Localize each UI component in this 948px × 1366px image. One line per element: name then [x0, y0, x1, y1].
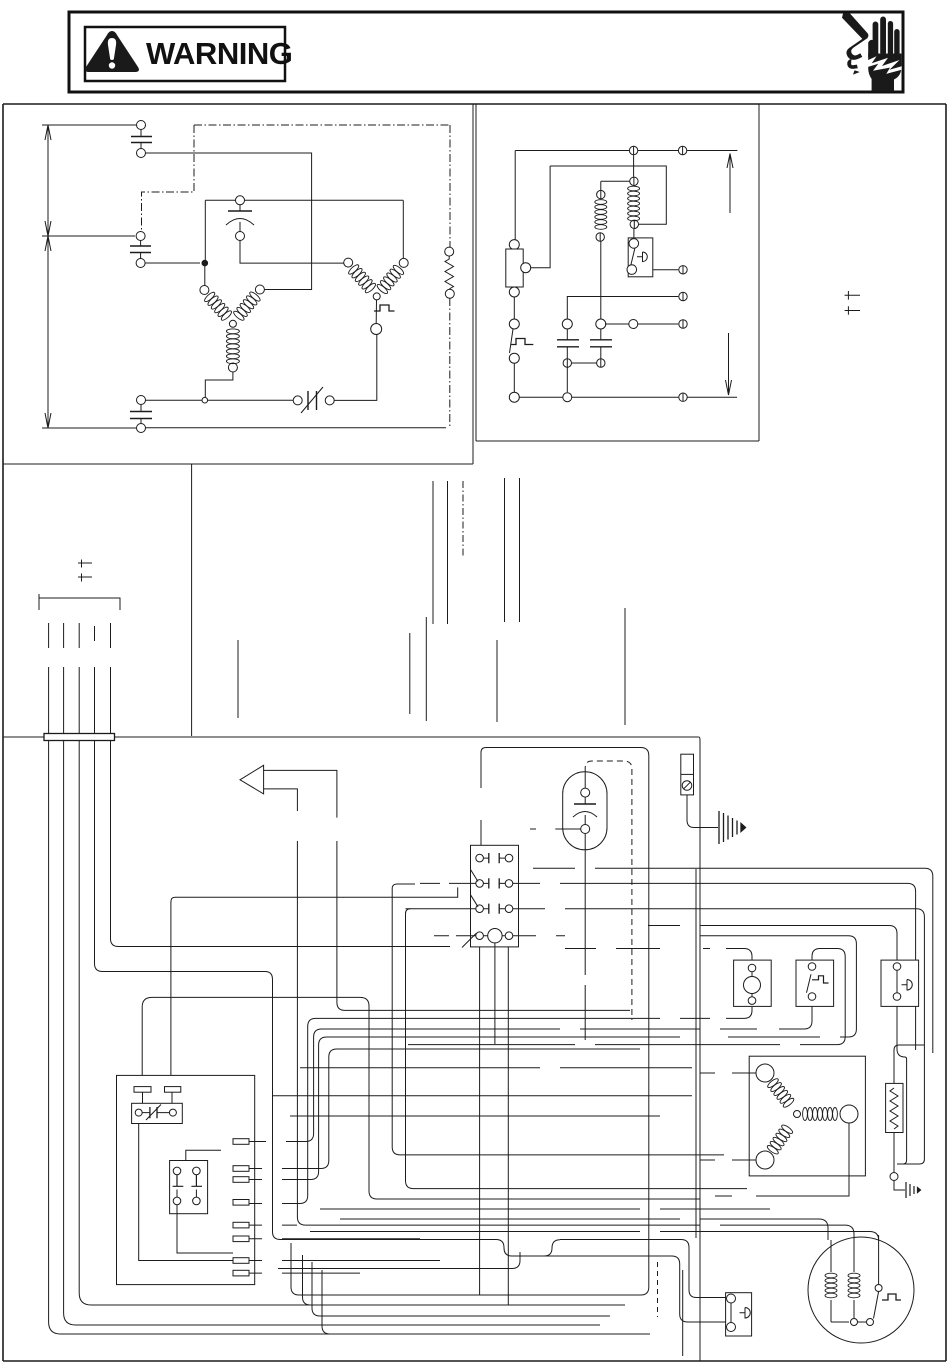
- svg-text:WARNING: WARNING: [146, 36, 292, 71]
